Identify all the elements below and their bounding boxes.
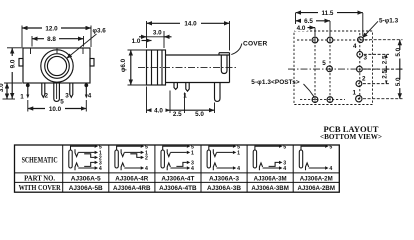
pcb hole pin 2 <box>356 81 362 87</box>
svg-text:AJ306A-3: AJ306A-3 <box>209 175 239 182</box>
pcb hole center unlabeled <box>357 66 363 72</box>
svg-text:φ6.0: φ6.0 <box>120 58 127 72</box>
label 5-phi1.3 with leader (pcb) <box>362 18 398 39</box>
svg-text:SCHEMATIC: SCHEMATIC <box>22 154 58 164</box>
svg-text:5: 5 <box>237 144 240 150</box>
svg-text:5: 5 <box>283 144 286 150</box>
pin 1 (front view) <box>26 83 30 98</box>
schematic cell AJ306A-2M <box>299 146 325 170</box>
post hole bottom-left <box>312 97 318 103</box>
post hole bottom-right <box>327 97 333 103</box>
svg-text:WITH COVER: WITH COVER <box>19 183 62 192</box>
svg-text:5.0: 5.0 <box>395 47 402 56</box>
table grid lines <box>15 145 340 192</box>
svg-text:AJ306A-5: AJ306A-5 <box>71 175 101 182</box>
dimension 10.0 <box>28 100 87 113</box>
svg-text:COVER: COVER <box>243 40 267 47</box>
svg-text:12.0: 12.0 <box>45 25 58 32</box>
pin 3 (front view) <box>70 83 73 97</box>
svg-text:<BOTTOM VIEW>: <BOTTOM VIEW> <box>320 134 382 141</box>
PCB layout dashed outline <box>294 31 373 105</box>
cover latch slot <box>221 55 227 74</box>
bottom dimension chain 4.0 / 2.5 / 5.0 (side) <box>147 87 215 119</box>
schematic cell AJ306A-4R <box>115 146 141 170</box>
post hole top-left <box>312 37 318 43</box>
svg-text:4: 4 <box>283 166 286 172</box>
PCB dashed horizontal through bottom post row <box>300 99 345 101</box>
svg-text:5-φ1.3: 5-φ1.3 <box>379 18 399 25</box>
side view center line <box>138 67 236 69</box>
svg-text:3: 3 <box>65 93 69 100</box>
front view right mounting tab <box>90 59 94 67</box>
dimension 12.0 <box>22 24 91 47</box>
dimension 8.8 <box>32 35 84 47</box>
svg-text:5: 5 <box>191 144 194 150</box>
dimension 9.0 <box>7 48 23 99</box>
svg-text:φ3.6: φ3.6 <box>93 28 107 35</box>
dimension phi 6.0 (side) <box>120 50 146 85</box>
svg-text:1: 1 <box>237 150 240 156</box>
dimension 4.0 (pcb) <box>295 24 316 36</box>
label 5-phi1.3 POSTs with leader <box>251 79 314 97</box>
PCB dashed centerline vertical pin column <box>359 33 361 103</box>
post hole top-right <box>327 37 333 43</box>
pcb hole pin 3 <box>357 52 363 58</box>
svg-text:4: 4 <box>329 166 332 172</box>
side pin 1 <box>186 83 189 92</box>
svg-text:4: 4 <box>353 43 357 50</box>
svg-text:8.8: 8.8 <box>47 36 56 43</box>
dimension phi 3.6 with leader <box>67 28 107 59</box>
pin 4 (front view) <box>84 83 88 98</box>
jack barrel middle circle <box>45 54 70 79</box>
svg-text:3.0: 3.0 <box>0 83 5 92</box>
table outer border <box>15 145 340 192</box>
svg-text:2: 2 <box>45 93 49 100</box>
dimension 3.0 (side) <box>139 30 172 48</box>
PCB dash-dot horizontal center line <box>288 68 378 70</box>
dimension chain 5.0/5.0 (pcb right outer) <box>395 40 404 99</box>
front view left mounting tab <box>19 59 23 67</box>
svg-text:2: 2 <box>145 155 148 161</box>
dimension 11.5 (pcb) <box>296 9 363 36</box>
dimension chain 2.5/2.5 (pcb right inner) <box>381 54 390 83</box>
jack barrel outer circle <box>41 50 73 82</box>
cover lip at top right <box>219 53 230 55</box>
svg-text:4: 4 <box>145 166 148 172</box>
COVER label with leader <box>231 40 267 54</box>
svg-text:3: 3 <box>364 55 368 62</box>
svg-text:PART NO.: PART NO. <box>24 174 55 183</box>
schematic cell AJ306A-4T <box>161 146 187 170</box>
svg-text:AJ306A-2BM: AJ306A-2BM <box>297 185 335 192</box>
svg-text:1.0: 1.0 <box>132 38 141 45</box>
svg-text:5.0: 5.0 <box>195 111 204 118</box>
svg-text:3.0: 3.0 <box>153 30 162 37</box>
dimension 6.5 (pcb) <box>296 17 331 36</box>
svg-text:AJ306A-4RB: AJ306A-4RB <box>113 185 151 192</box>
side pin a <box>174 83 177 90</box>
svg-text:14.0: 14.0 <box>184 21 197 28</box>
svg-text:AJ306A-3BM: AJ306A-3BM <box>251 185 289 192</box>
dimension 3.0 <box>0 83 22 99</box>
svg-text:AJ306A-5B: AJ306A-5B <box>69 185 103 192</box>
svg-text:1: 1 <box>352 90 356 97</box>
svg-text:5: 5 <box>322 60 326 67</box>
svg-text:4: 4 <box>191 166 194 172</box>
barrel top center tick <box>56 48 58 53</box>
svg-text:4: 4 <box>88 93 92 100</box>
schematic cell AJ306A-3 <box>207 146 233 170</box>
front view body <box>23 48 90 83</box>
pin 2 (front view) <box>42 83 45 97</box>
svg-text:5: 5 <box>329 144 332 150</box>
svg-text:5: 5 <box>145 144 148 150</box>
svg-text:5.0: 5.0 <box>395 77 402 86</box>
side view flange stack <box>147 50 166 85</box>
svg-text:4.0: 4.0 <box>297 25 306 32</box>
mounting post (side view) <box>215 83 221 102</box>
svg-text:AJ306A-4R: AJ306A-4R <box>115 175 148 182</box>
svg-text:5: 5 <box>99 144 102 150</box>
svg-text:AJ306A-4T: AJ306A-4T <box>161 175 194 182</box>
svg-text:2.5: 2.5 <box>381 55 388 64</box>
svg-text:4: 4 <box>237 166 240 172</box>
svg-text:1: 1 <box>183 93 187 100</box>
svg-text:2.5: 2.5 <box>173 111 182 118</box>
pcb hole pin 5 <box>327 66 333 72</box>
svg-text:11.5: 11.5 <box>322 10 334 17</box>
PCB dashed centerline vertical right posts column <box>329 33 331 103</box>
pin 5 center sleeve pin (front view) <box>54 83 60 101</box>
side view main body <box>166 53 230 83</box>
dimension 14.0 <box>147 20 230 51</box>
svg-text:1: 1 <box>20 94 24 101</box>
jack barrel inner hole circle <box>47 56 66 75</box>
PCB dashed horizontal through top post row <box>297 39 370 41</box>
schematic cell AJ306A-5 <box>69 146 95 170</box>
svg-text:1: 1 <box>191 150 194 156</box>
svg-text:2: 2 <box>362 76 366 83</box>
svg-text:AJ306A-2M: AJ306A-2M <box>300 175 333 182</box>
dimension 1.0 (side) <box>132 38 152 45</box>
svg-text:9.0: 9.0 <box>9 59 16 68</box>
PCB dashed centerline vertical left posts column <box>314 33 316 103</box>
pcb right extension dashes <box>363 40 403 99</box>
svg-text:AJ306A-4TB: AJ306A-4TB <box>159 185 197 192</box>
svg-text:AJ306A-3B: AJ306A-3B <box>207 185 241 192</box>
svg-text:2.5: 2.5 <box>381 70 388 79</box>
pcb hole pin 1 <box>356 96 362 102</box>
svg-text:AJ306A-3M: AJ306A-3M <box>254 175 287 182</box>
svg-text:5-φ1.3<POSTs>: 5-φ1.3<POSTs> <box>251 79 300 86</box>
svg-text:10.0: 10.0 <box>49 106 62 113</box>
svg-text:4.0: 4.0 <box>154 108 163 115</box>
svg-text:4: 4 <box>99 166 102 172</box>
pcb hole pin 4 <box>358 37 364 43</box>
schematic cell AJ306A-3M <box>253 146 279 170</box>
svg-text:PCB LAYOUT: PCB LAYOUT <box>324 124 379 134</box>
svg-text:5: 5 <box>60 99 64 106</box>
